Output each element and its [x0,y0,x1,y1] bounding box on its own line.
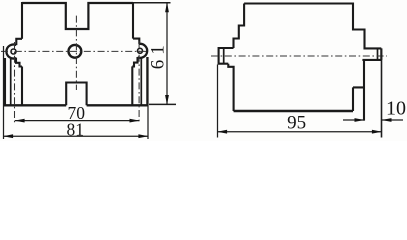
side view: bottom edge emphasis [234,110,353,112]
front view: left ear outer arc [6,44,16,58]
svg-text:10: 10 [386,98,406,120]
front view: right ear bolt hole [138,48,143,53]
front view: left body edge lower [21,67,23,106]
dim 10: right outside arrowhead [382,118,392,122]
front view: left hole center line / 70 extension [14,42,16,124]
side view: outline [219,4,382,121]
front view: bottom notch (pedestal) [66,83,86,106]
front view: top edge with U-notch [22,3,133,29]
front view: center bore circle [69,45,82,58]
dim 81: right extension line [147,57,149,139]
dim 81: dimension line [4,135,149,137]
front view: left ear lower tab steps [16,58,22,67]
dim 61: top extension line [133,2,171,4]
front view: left ear tab top [16,39,22,45]
dim 70: left arrowhead [15,119,25,123]
front view: right ear outer arc [138,44,148,58]
dim 10: dimension line right part [382,119,404,121]
dim 70: right arrowhead [130,119,140,123]
svg-text:95: 95 [287,113,306,134]
dim 95: left arrowhead [217,130,227,134]
dim 95: right arrowhead [372,130,382,134]
dim 95: dimension line [218,131,382,133]
front view: left body edge upper [21,2,23,39]
dim 70: dimension line [15,120,139,122]
front view: horizontal center line [1,50,148,52]
dim 61: dimension line [166,3,168,105]
dim 61: top arrowhead [165,2,169,12]
front view: right hole center line / 70 extension [138,41,140,124]
svg-text:61: 61 [147,40,168,69]
front view: bottom edge right segment [87,104,149,106]
dim 81: left extension line [3,46,5,139]
dim 61: bottom arrowhead [165,95,169,105]
side view: right boss inner edge [377,48,379,60]
dim 10: left outside arrowhead [355,118,365,122]
side view: left boss inner edge [223,48,225,64]
front view: left ear bolt hole [11,49,16,54]
front view: right leg inner edge [140,58,142,105]
front view: right body edge upper [132,2,134,39]
side view: horizontal center line [211,55,387,57]
front view: right body edge lower [131,66,133,105]
front view: left leg inner edge [10,58,12,105]
dim 95: left extension line [217,65,219,138]
front view: left leg outer edge [4,58,6,105]
svg-text:81: 81 [67,120,85,140]
dim 81: right arrowhead [138,134,148,138]
dim 61: bottom extension line [149,103,176,105]
front view: bottom edge left segment [4,104,66,106]
dim 10: dimension line left part [343,119,365,121]
front view: right leg outer edge [146,57,148,105]
front view: right ear tab top [133,39,139,44]
front view: vertical center line [75,16,77,90]
front view: right ear lower tab steps [132,57,137,66]
dim 95: right extension line (shared with 10) [381,48,383,137]
dim 81: left arrowhead [3,134,13,138]
